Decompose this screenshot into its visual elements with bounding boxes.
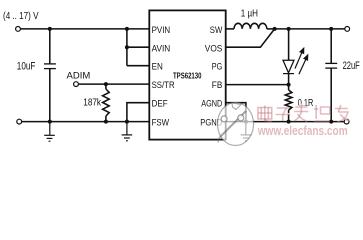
input GND terminal: [17, 119, 22, 124]
wire: R2 bottom to GND rail: [288, 110, 290, 122]
junction: L1 / VOS: [273, 27, 277, 31]
svg-text:(4 .. 17) V: (4 .. 17) V: [3, 11, 39, 22]
output terminal GND: [344, 119, 349, 124]
wire: bus to EN: [127, 65, 149, 67]
svg-text:PVIN: PVIN: [152, 25, 171, 36]
wire: input bus vertical: [126, 29, 128, 66]
resistor R1 187k: [103, 89, 110, 116]
junction: DEF / GND rail: [125, 120, 129, 124]
LED D1 emission arrows: [295, 48, 308, 74]
junction: R2 / GND rail: [287, 120, 291, 124]
junction: GND rail / C2: [329, 120, 333, 124]
wire: LED anode lead: [288, 29, 290, 60]
wire: VIN rail to PVIN: [21, 28, 150, 30]
wire: VIN rail to C1 top: [49, 29, 51, 64]
svg-text:VOS: VOS: [205, 43, 223, 54]
svg-text:TPS62130: TPS62130: [173, 70, 202, 80]
wire: DEF to GND rail: [127, 103, 149, 122]
svg-text:AGND: AGND: [201, 99, 222, 110]
junction: VIN rail / C1: [48, 27, 52, 31]
wire: ADIM to SS/TR: [79, 83, 150, 85]
wire: bottom GND rail (left): [22, 121, 150, 123]
svg-text:1 µH: 1 µH: [241, 8, 258, 19]
watermark stamp logo (elecfans seal): [218, 103, 254, 146]
LED D1 cathode bar: [283, 73, 294, 75]
wire: VOS feedback: [226, 29, 275, 47]
svg-text:AVIN: AVIN: [152, 43, 171, 54]
junction: GND rail / C1: [48, 120, 52, 124]
output terminal VOUT: [345, 27, 350, 32]
resistor R2 0.1R: [285, 90, 292, 110]
wire: bus to AVIN: [127, 46, 149, 48]
junction: VOUT rail / C2: [329, 27, 333, 31]
capacitor C2 22uF: [325, 63, 337, 68]
wire: VOUT rail to C2 top: [330, 29, 332, 64]
svg-text:www.elecfans.com: www.elecfans.com: [257, 123, 348, 138]
ground symbol (input): [44, 122, 55, 142]
LED D1 triangle: [283, 60, 294, 73]
ground symbol (DEF/FSW): [122, 122, 133, 141]
wire: LED cathode to FB node: [288, 74, 290, 90]
wire: R1 top lead: [105, 84, 107, 89]
wire: FB to LED/R2 node: [226, 84, 289, 86]
svg-text:SW: SW: [210, 25, 223, 36]
junction: R1 / GND rail: [104, 120, 108, 124]
ground symbol (power GND): [241, 122, 252, 141]
svg-text:10uF: 10uF: [17, 60, 36, 72]
wire: VOUT rail: [275, 28, 345, 30]
junction: bus / AVIN stub: [125, 45, 129, 49]
input terminal VIN: [16, 27, 21, 32]
watermark text: www.elecfans.com: [256, 122, 348, 138]
watermark text: 电子发烧友 (pseudo glyphs): [257, 104, 349, 122]
IC U1 TPS62130 body: [149, 10, 225, 139]
svg-text:FSW: FSW: [152, 117, 170, 128]
svg-text:ADIM: ADIM: [67, 71, 91, 82]
wire: C1 bottom to GND rail: [49, 69, 51, 122]
junction: FB / LED / R2: [287, 83, 291, 87]
wire: bottom GND rail (right): [226, 121, 345, 123]
wire: R1 bottom lead: [105, 116, 107, 122]
wire: C2 bottom to GND rail: [330, 68, 332, 122]
terminal ADIM: [74, 82, 79, 87]
svg-text:187k: 187k: [83, 98, 102, 109]
svg-text:22uF: 22uF: [343, 60, 360, 72]
svg-text:FB: FB: [212, 80, 223, 91]
wire: SW to L1: [226, 28, 234, 30]
svg-text:EN: EN: [152, 62, 163, 73]
capacitor C1 10uF: [44, 64, 56, 69]
svg-text:PG: PG: [212, 62, 223, 73]
svg-text:SS/TR: SS/TR: [152, 80, 175, 91]
wire: L1 to VOUT node: [267, 28, 275, 30]
junction: ADIM wire / R1 top: [104, 82, 108, 86]
svg-text:DEF: DEF: [152, 99, 168, 110]
wire: AGND to GND rail: [226, 103, 246, 122]
junction: VOUT rail / LED D1: [287, 27, 291, 31]
junction: AGND / GND rail: [244, 120, 248, 124]
inductor L1: [234, 23, 267, 29]
junction: VIN rail / input bus: [125, 27, 129, 31]
